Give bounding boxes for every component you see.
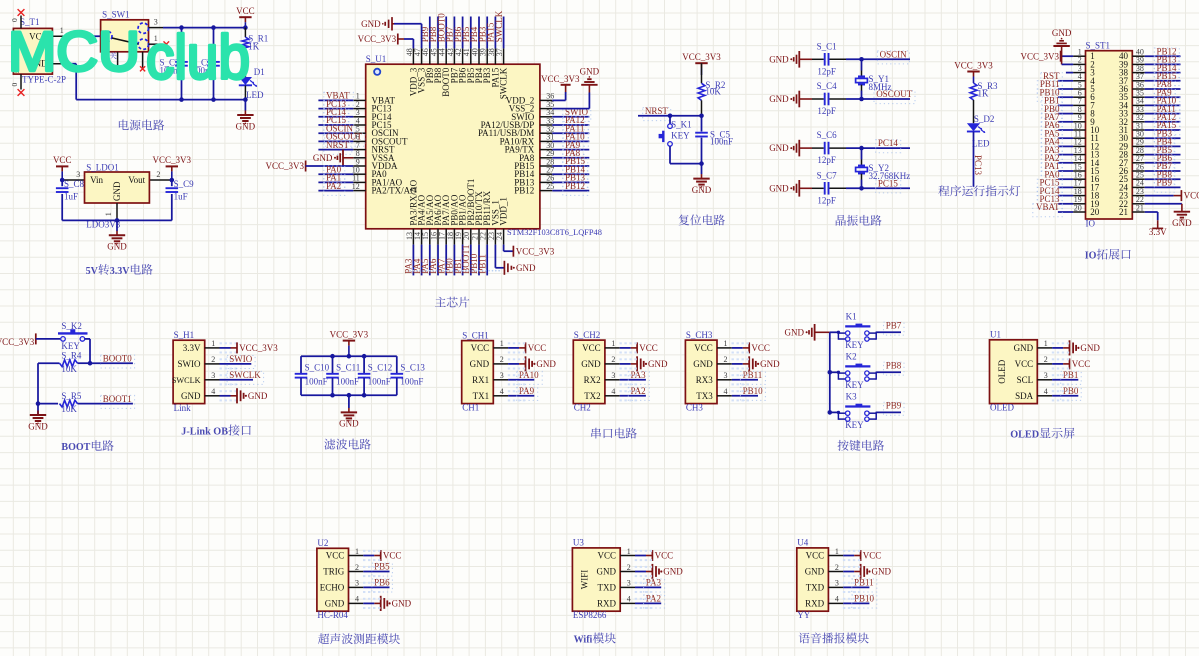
svg-text:2: 2 xyxy=(1044,355,1048,364)
svg-text:TX1: TX1 xyxy=(473,391,490,401)
svg-text:GND: GND xyxy=(325,598,345,608)
svg-text:PA2: PA2 xyxy=(326,181,341,191)
svg-text:CH1: CH1 xyxy=(462,403,479,413)
pin 1 GND xyxy=(1037,347,1052,349)
svg-text:NRST: NRST xyxy=(326,140,350,150)
wire NRST xyxy=(638,115,702,117)
wire net PB10 xyxy=(843,602,869,604)
svg-text:VCC_3V3: VCC_3V3 xyxy=(330,329,369,339)
wire net PB4 xyxy=(478,17,480,49)
wire net PA11 xyxy=(552,132,589,134)
pin 2 TRIG xyxy=(349,571,364,573)
wire net PA2 xyxy=(318,190,353,192)
svg-text:PB10: PB10 xyxy=(854,593,875,603)
net label PC15 xyxy=(876,180,901,193)
svg-text:2: 2 xyxy=(156,170,160,179)
wire VSS_2 to GND xyxy=(552,108,589,110)
svg-text:2: 2 xyxy=(724,355,728,364)
IO pin 7 xyxy=(1073,104,1085,106)
pin 1 VCC xyxy=(52,35,69,37)
net label PB13 xyxy=(563,174,588,187)
svg-text:20: 20 xyxy=(1074,203,1082,212)
wire VSS_3 to GND xyxy=(421,24,423,49)
svg-text:VCC_3V3: VCC_3V3 xyxy=(1020,51,1059,61)
svg-text:U4: U4 xyxy=(797,538,808,548)
net label PA5 xyxy=(1041,130,1062,143)
net label PA2 xyxy=(324,182,345,195)
svg-text:PB12: PB12 xyxy=(565,181,585,191)
IO pin 13 xyxy=(1073,154,1085,156)
wire net PA9 xyxy=(552,149,589,151)
chip pin 4 PC15 xyxy=(353,124,365,126)
chip pin 21 PB10/TX xyxy=(478,229,480,245)
net label PB11 xyxy=(1037,81,1062,94)
svg-text:S_U1: S_U1 xyxy=(366,54,387,64)
IO pin 10 xyxy=(1073,129,1085,131)
net label PA10 xyxy=(563,133,589,146)
svg-text:Vin: Vin xyxy=(90,175,103,185)
power VCC xyxy=(1052,363,1063,365)
svg-text:RXD: RXD xyxy=(597,598,617,608)
net label PA11 xyxy=(563,125,589,138)
chip pin 28 PB15 xyxy=(540,165,552,167)
svg-text:PB7: PB7 xyxy=(886,321,902,331)
wire net PA12 xyxy=(1145,121,1181,123)
svg-text:3: 3 xyxy=(627,579,631,588)
net label PB13 xyxy=(1154,56,1179,69)
svg-text:1uF: 1uF xyxy=(64,192,78,202)
net label PB9 xyxy=(1154,179,1175,192)
svg-text:U3: U3 xyxy=(573,538,584,548)
pin 4 TX2 xyxy=(605,395,620,397)
pin 1 VCC xyxy=(620,555,635,557)
wire net PB0 xyxy=(1058,113,1073,115)
title: filter circuit xyxy=(324,439,335,450)
header S_ST1 IO expansion xyxy=(1086,51,1133,219)
net label PA7 xyxy=(1041,114,1062,127)
svg-text:GND: GND xyxy=(805,567,825,577)
title: crystal circuit xyxy=(836,215,846,226)
svg-text:4: 4 xyxy=(500,387,504,396)
svg-text:S_R4: S_R4 xyxy=(61,351,82,361)
J-Link pin 3 SWCLK xyxy=(205,379,220,381)
svg-text:VCC: VCC xyxy=(1072,359,1091,369)
svg-text:PB9: PB9 xyxy=(1157,178,1173,188)
module S_CH3 CH3 xyxy=(685,340,717,404)
J-Link pin 1 3.3V xyxy=(205,347,220,349)
top rail xyxy=(301,355,397,357)
svg-text:VCC: VCC xyxy=(326,551,345,561)
net label PB9 xyxy=(884,402,905,415)
wire key to cap bottom xyxy=(670,163,702,165)
svg-text:S_C10: S_C10 xyxy=(305,362,330,372)
bottom rail wire xyxy=(76,99,245,101)
wire net PB5 xyxy=(1145,154,1181,156)
wire net PB11 xyxy=(732,379,758,381)
wire net PB11 xyxy=(843,586,869,588)
pin 3 SCL xyxy=(1037,379,1052,381)
wire net PB1 xyxy=(1058,104,1073,106)
net label PB0 xyxy=(1042,105,1063,118)
svg-text:S_C8: S_C8 xyxy=(64,179,85,189)
pin 2 GND xyxy=(52,63,69,65)
wire net PA4 xyxy=(1058,145,1073,147)
pin 1 VCC xyxy=(349,555,364,557)
svg-text:VCC: VCC xyxy=(694,343,713,353)
power GND xyxy=(363,602,374,604)
svg-text:GND: GND xyxy=(760,359,780,369)
pin 1 VCC xyxy=(717,347,732,349)
svg-text:GND: GND xyxy=(693,359,713,369)
wire net PA10 xyxy=(508,379,534,381)
net label PB14 xyxy=(1154,64,1179,77)
J-Link pin 4 GND xyxy=(205,395,220,397)
net label PB6 xyxy=(372,579,393,592)
svg-text:LED: LED xyxy=(972,139,990,149)
wire net PB8 xyxy=(876,371,901,373)
svg-text:PA3: PA3 xyxy=(646,577,662,587)
pin 1 VCC xyxy=(828,555,843,557)
svg-text:Wifi: Wifi xyxy=(574,635,593,646)
svg-text:GND: GND xyxy=(597,567,617,577)
wire net PA9 xyxy=(508,395,534,397)
net label PC14 xyxy=(876,140,901,153)
wire net PC13 xyxy=(973,132,975,187)
svg-text:GND: GND xyxy=(28,421,48,431)
svg-text:HC-R04: HC-R04 xyxy=(317,610,348,620)
capacitor S_C2 100nF xyxy=(181,28,183,60)
svg-text:3: 3 xyxy=(724,371,728,380)
wire net PA2 xyxy=(620,395,646,397)
svg-text:PB11: PB11 xyxy=(743,370,763,380)
chip pin 42 PB6 xyxy=(462,48,464,64)
svg-text:100nF: 100nF xyxy=(305,377,328,387)
pin 0 top no-connect xyxy=(20,16,22,29)
resistor S_R5 10K xyxy=(38,403,58,405)
net label OSCIN xyxy=(877,51,909,64)
module U3 ESP8266 xyxy=(572,548,620,611)
IO pin 12 xyxy=(1073,145,1085,147)
crystal S_Y2 32.768KHz xyxy=(861,148,863,159)
wire net PB9 xyxy=(429,17,431,49)
IO pin 37 xyxy=(1132,80,1144,82)
svg-text:4: 4 xyxy=(211,387,215,396)
bottom rail xyxy=(62,219,172,221)
svg-text:4: 4 xyxy=(1044,387,1048,396)
chip pin 32 PA11/USB/DM xyxy=(540,132,552,134)
junction xyxy=(115,218,120,223)
svg-text:S_C7: S_C7 xyxy=(817,170,838,180)
wire net PB0 xyxy=(1052,395,1078,397)
svg-text:U1: U1 xyxy=(990,330,1001,340)
net label OSCIN xyxy=(324,125,356,138)
power VCC xyxy=(508,347,519,349)
IO pin 15 xyxy=(1073,170,1085,172)
wire net PA5 xyxy=(429,245,431,276)
wire key to BOOT0 node xyxy=(85,338,90,340)
junction xyxy=(668,114,673,119)
svg-text:SWIO: SWIO xyxy=(229,354,252,364)
pin 1 GND stub xyxy=(116,203,118,220)
svg-text:BOOT: BOOT xyxy=(61,442,90,453)
svg-text:GND: GND xyxy=(769,94,789,104)
svg-text:RX1: RX1 xyxy=(472,375,489,385)
capacitor S_C10 100nF xyxy=(300,356,302,373)
svg-text:SWCLK: SWCLK xyxy=(499,67,509,99)
svg-text:PB8: PB8 xyxy=(886,361,902,371)
chip pin 31 PA10/RX xyxy=(540,140,552,142)
svg-text:Link: Link xyxy=(174,403,191,413)
IO pin 3 xyxy=(1073,72,1085,74)
svg-text:Vout: Vout xyxy=(128,175,145,185)
net label BOOT0 xyxy=(101,355,135,368)
pin 2 VCC xyxy=(1037,363,1052,365)
net label PB8 xyxy=(884,362,905,375)
net label PA10 xyxy=(517,371,543,384)
capacitor S_C8 1uF xyxy=(61,180,63,186)
wire net BOOT0 xyxy=(445,17,447,49)
power VCC_3V3 below chip xyxy=(512,246,514,257)
key S_K1 KEY xyxy=(669,116,671,124)
svg-text:10K: 10K xyxy=(705,87,721,97)
power GND at J-Link pin4 xyxy=(220,395,231,397)
pin 4 RXD xyxy=(620,602,635,604)
title: reset circuit xyxy=(679,215,690,226)
pin 3 RX1 xyxy=(493,379,508,381)
power GND xyxy=(620,363,631,365)
capacitor S_C13 100nF xyxy=(396,356,398,373)
svg-text:VCC: VCC xyxy=(655,551,674,561)
wire net PA9 xyxy=(1145,96,1181,98)
capacitor S_C4 12pF xyxy=(799,98,812,100)
wire net SWCLK xyxy=(503,17,505,49)
wire VDD_1 to VCC_3V3 xyxy=(503,245,505,252)
IO pin 34 xyxy=(1132,104,1144,106)
junction xyxy=(828,370,833,375)
net label PA9 xyxy=(1154,89,1175,102)
net label PB14 xyxy=(563,166,588,179)
svg-text:4: 4 xyxy=(835,595,839,604)
wire net PA4 xyxy=(421,245,423,276)
svg-text:PA9: PA9 xyxy=(519,386,535,396)
capacitor S_C6 12pF xyxy=(799,147,812,149)
IO pin 31 xyxy=(1132,129,1144,131)
svg-text:S_CH1: S_CH1 xyxy=(462,330,489,340)
svg-text:BOOT1: BOOT1 xyxy=(103,394,132,404)
svg-text:VCC: VCC xyxy=(597,551,616,561)
wire IO pin3 xyxy=(1066,72,1073,74)
svg-text:CH3: CH3 xyxy=(686,403,704,413)
svg-text:PB11: PB11 xyxy=(854,577,874,587)
chip pin 38 PA15 xyxy=(494,48,496,64)
svg-text:SWIO: SWIO xyxy=(178,359,201,369)
svg-text:3: 3 xyxy=(835,579,839,588)
chip pin 3 PC14 xyxy=(353,116,365,118)
wire net PA12 xyxy=(552,124,589,126)
wire net PB7 xyxy=(876,331,901,333)
net label PA2 xyxy=(628,387,649,400)
svg-text:GND: GND xyxy=(236,121,256,131)
chip pin 11 PA1/AO xyxy=(353,181,365,183)
net label PB12 xyxy=(563,182,588,195)
net label PA10 xyxy=(1154,97,1180,110)
svg-text:S_C12: S_C12 xyxy=(368,362,393,372)
capacitor S_C11 100nF xyxy=(332,356,334,373)
svg-text:D1: D1 xyxy=(254,67,265,77)
net label PB7 xyxy=(1154,163,1175,176)
svg-text:GND: GND xyxy=(361,19,381,29)
IO pin 1 xyxy=(1073,55,1085,57)
net label PB4 xyxy=(1154,138,1175,151)
pin 2 GND xyxy=(828,571,843,573)
chip pin 24 VDD_1 xyxy=(503,229,505,245)
svg-text:1: 1 xyxy=(104,212,113,216)
net label PB6 xyxy=(1154,155,1175,168)
chip pin 25 PB12 xyxy=(540,190,552,192)
svg-text:4: 4 xyxy=(611,387,615,396)
wire net PC13 xyxy=(318,108,353,110)
module S_CH2 CH2 xyxy=(573,340,605,404)
svg-text:SWCLK: SWCLK xyxy=(494,10,504,42)
wire net VBAT xyxy=(1058,211,1073,213)
svg-text:21: 21 xyxy=(1119,207,1128,217)
capacitor S_C12 100nF xyxy=(363,356,365,373)
wire net PA8 xyxy=(552,157,589,159)
svg-text:25: 25 xyxy=(546,182,554,191)
net label PB8 xyxy=(1154,171,1175,184)
wire net PB5 xyxy=(470,17,472,49)
capacitor S_C9 1uF xyxy=(171,180,173,186)
pin 0 bottom no-connect xyxy=(20,74,22,89)
net label PA2 xyxy=(1041,155,1062,168)
svg-text:3.3V: 3.3V xyxy=(1149,227,1167,237)
wire net PC14 xyxy=(846,147,910,149)
junction xyxy=(179,97,184,102)
svg-text:S_H1: S_H1 xyxy=(174,330,195,340)
IO pin 18 xyxy=(1073,195,1085,197)
svg-text:VCC: VCC xyxy=(751,343,770,353)
pin 2 GND xyxy=(620,571,635,573)
wire net PA3 xyxy=(1058,154,1073,156)
net label PB10 xyxy=(1037,89,1062,102)
chip pin 9 VDDA xyxy=(353,165,365,167)
junction xyxy=(179,25,184,30)
chip pin 34 SWIO xyxy=(540,116,552,118)
svg-text:VCC: VCC xyxy=(1015,359,1034,369)
capacitor S_C3 100nF xyxy=(213,28,215,60)
svg-text:24: 24 xyxy=(495,232,504,240)
svg-text:GND: GND xyxy=(769,143,789,153)
chip pin 12 PA2/TX/AO xyxy=(353,190,365,192)
switch unused pins below xyxy=(117,52,119,68)
wire net PC14 xyxy=(1058,195,1073,197)
svg-text:KEY: KEY xyxy=(671,130,690,140)
net label PC15 xyxy=(1037,179,1062,192)
svg-text:RX2: RX2 xyxy=(584,375,601,385)
net label PA3 xyxy=(628,371,649,384)
IO pin 20 xyxy=(1073,211,1085,213)
wire T1 pin2 down to bottom rail xyxy=(69,63,76,65)
svg-text:GND: GND xyxy=(785,327,805,337)
svg-text:VCC: VCC xyxy=(53,155,72,165)
chip pin 8 VSSA xyxy=(353,157,365,159)
capacitor S_C7 12pF xyxy=(799,187,812,189)
power VCC xyxy=(732,347,743,349)
svg-text:TXD: TXD xyxy=(598,582,617,592)
wire net SWCLK xyxy=(220,379,254,381)
IO pin 27 xyxy=(1132,162,1144,164)
power GND xyxy=(843,571,854,573)
wire net PA6 xyxy=(437,245,439,276)
svg-text:club: club xyxy=(146,24,250,93)
wire net PB13 xyxy=(1145,63,1181,65)
net label PA11 xyxy=(1154,105,1180,118)
svg-text:GND: GND xyxy=(112,181,122,201)
IO pin 30 xyxy=(1132,137,1144,139)
ground GND xyxy=(116,220,118,231)
chip pin 14 PA4/AO xyxy=(421,229,423,245)
svg-text:PC14: PC14 xyxy=(878,138,899,148)
wire net OSCOUT xyxy=(318,140,353,142)
svg-text:S_D2: S_D2 xyxy=(974,114,995,124)
MCU U1 STM32F103C8T6_LQFP48 xyxy=(366,64,540,229)
title: serial port circuit xyxy=(591,428,601,439)
chip pin 16 PA6/AO xyxy=(437,229,439,245)
chip pin 18 PB0/AO xyxy=(453,229,455,245)
svg-text:1: 1 xyxy=(500,339,504,348)
svg-text:8MHz: 8MHz xyxy=(869,82,892,92)
svg-text:1: 1 xyxy=(355,547,359,556)
power GND xyxy=(1052,347,1063,349)
wire net PB8 xyxy=(1145,178,1181,180)
svg-text:GND: GND xyxy=(1052,28,1072,38)
IO pin 17 xyxy=(1073,186,1085,188)
net label PA8 xyxy=(563,150,584,163)
chip pin 20 PB2/BOOT1 xyxy=(470,229,472,245)
svg-text:GND: GND xyxy=(769,54,789,64)
svg-text:TX2: TX2 xyxy=(584,391,601,401)
svg-text:2: 2 xyxy=(835,563,839,572)
wire net PB8 xyxy=(437,17,439,49)
chip pin 43 PB7 xyxy=(453,48,455,64)
dotted marks below chip xyxy=(409,270,500,272)
wire net PA1 xyxy=(1058,170,1073,172)
svg-text:SDA: SDA xyxy=(1015,391,1034,401)
svg-text:RXD: RXD xyxy=(805,598,825,608)
chip pin 33 PA12/USB/DP xyxy=(540,124,552,126)
chip pin 35 VSS_2 xyxy=(540,108,552,110)
net label PB12 xyxy=(1154,48,1179,61)
pin 2 GND xyxy=(717,363,732,365)
svg-text:1K: 1K xyxy=(978,89,990,99)
svg-text:4: 4 xyxy=(355,595,359,604)
wire net PA10 xyxy=(1145,104,1181,106)
wire net PB3 xyxy=(1145,137,1181,139)
wire net PB1 xyxy=(1052,379,1078,381)
wire net PA7 xyxy=(1058,121,1073,123)
svg-text:ECHO: ECHO xyxy=(320,582,345,592)
power GND xyxy=(508,363,519,365)
svg-text:CH2: CH2 xyxy=(574,403,591,413)
IO pin 11 xyxy=(1073,137,1085,139)
svg-text:3: 3 xyxy=(76,170,80,179)
svg-text:0: 0 xyxy=(10,83,19,87)
svg-text:VDD_1: VDD_1 xyxy=(499,197,509,226)
svg-text:1: 1 xyxy=(611,339,615,348)
wire net BOOT1 xyxy=(78,403,133,405)
net label NRST xyxy=(643,108,671,121)
svg-text:12pF: 12pF xyxy=(817,66,836,76)
